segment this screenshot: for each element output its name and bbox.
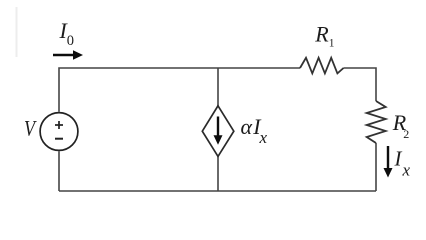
- label R1: [314, 22, 335, 50]
- wire: V source bottom to bottom-left corner: [58, 151, 60, 191]
- decorative faint margin line: [16, 7, 18, 57]
- svg-text:x: x: [259, 128, 268, 147]
- label I0: [59, 18, 75, 49]
- current Ix arrow: [384, 146, 393, 178]
- svg-text:I: I: [394, 146, 403, 170]
- wire: R1 to top-right corner down to R2: [344, 68, 377, 101]
- label alpha Ix: [241, 114, 268, 147]
- voltage source V1: [40, 113, 78, 151]
- current I0 arrow: [53, 50, 83, 59]
- svg-text:V: V: [24, 117, 37, 141]
- wire: bottom run: [59, 190, 376, 192]
- dependent current source (diamond): [202, 106, 234, 157]
- resistor R2: [367, 101, 386, 143]
- label R2: [392, 110, 410, 141]
- svg-text:R: R: [314, 22, 329, 47]
- svg-text:0: 0: [67, 33, 74, 49]
- svg-text:2: 2: [403, 127, 409, 141]
- resistor R1: [300, 58, 344, 74]
- wire: dependent source bottom to bottom run: [217, 156, 219, 191]
- svg-text:1: 1: [329, 38, 335, 50]
- wire: left branch top (V source to top-left corner) and top run to R1: [59, 68, 300, 112]
- svg-text:x: x: [402, 161, 411, 180]
- wire: top run to dependent source top: [217, 68, 219, 106]
- wire: R2 to bottom-right corner: [375, 143, 377, 191]
- label Ix: [394, 146, 411, 179]
